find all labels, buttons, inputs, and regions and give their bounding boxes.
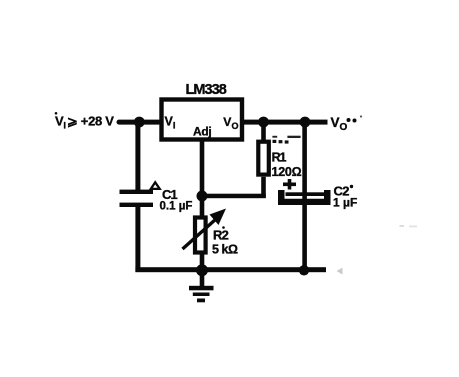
- resistor R1: [258, 142, 269, 175]
- wire C2 upper lead: [302, 122, 307, 205]
- wire C1 upper lead: [135, 122, 140, 193]
- node C2 bottom junction: [299, 265, 309, 275]
- wire C1 lower lead: [135, 207, 140, 272]
- wire output: [244, 120, 328, 125]
- svg-text:1 µF: 1 µF: [333, 196, 357, 210]
- svg-text:5 kΩ: 5 kΩ: [212, 242, 238, 256]
- node input junction: [134, 117, 145, 128]
- svg-text:LM338: LM338: [186, 82, 227, 98]
- capacitor C1: [120, 190, 154, 207]
- node ground junction: [196, 264, 208, 276]
- label 0.1 uF: [160, 200, 193, 212]
- svg-text:0.1 µF: 0.1 µF: [160, 200, 193, 212]
- artifact dashes above R1: [272, 136, 300, 144]
- svg-text:120Ω: 120Ω: [272, 165, 302, 179]
- wire bottom rail: [135, 267, 326, 272]
- label 5 kohm: [212, 242, 238, 256]
- node output junction C2: [300, 117, 311, 128]
- wire R1 top lead: [261, 122, 266, 141]
- node label VO**: [331, 115, 363, 133]
- resistor R2 (variable): [183, 209, 227, 253]
- capacitor C2 (electrolytic): [278, 190, 331, 205]
- plus mark C2 polarity: [283, 179, 296, 190]
- wire R1 bottom lead: [261, 177, 266, 198]
- label R1: [272, 151, 287, 165]
- svg-text:R2: R2: [213, 227, 229, 242]
- ground: [189, 286, 214, 303]
- wire C2 lower lead: [302, 205, 307, 269]
- label 1 uF: [333, 196, 357, 210]
- delta mark near C1: [151, 182, 160, 189]
- node Adj junction: [197, 191, 208, 202]
- wire R2 bottom lead: [200, 254, 205, 270]
- label R2: [213, 226, 229, 242]
- label 120 ohm: [272, 165, 302, 179]
- artifact faint dashes right: [400, 225, 418, 227]
- wire ground stub: [200, 269, 205, 288]
- artifact arrow at bottom rail end: [337, 268, 343, 275]
- node output junction R1: [258, 117, 269, 128]
- wire input: [117, 120, 162, 125]
- label C1: [162, 187, 177, 202]
- svg-text:Adj: Adj: [193, 125, 211, 139]
- label C2*: [334, 184, 354, 199]
- wire Adj to R1: [202, 194, 266, 199]
- wire Adj lead: [200, 142, 205, 197]
- wire R2 top lead: [200, 196, 205, 218]
- node label VI >= +28 V: [55, 112, 115, 132]
- svg-text:R1: R1: [272, 151, 287, 165]
- op-amp U1 LM338 regulator box: [162, 82, 243, 140]
